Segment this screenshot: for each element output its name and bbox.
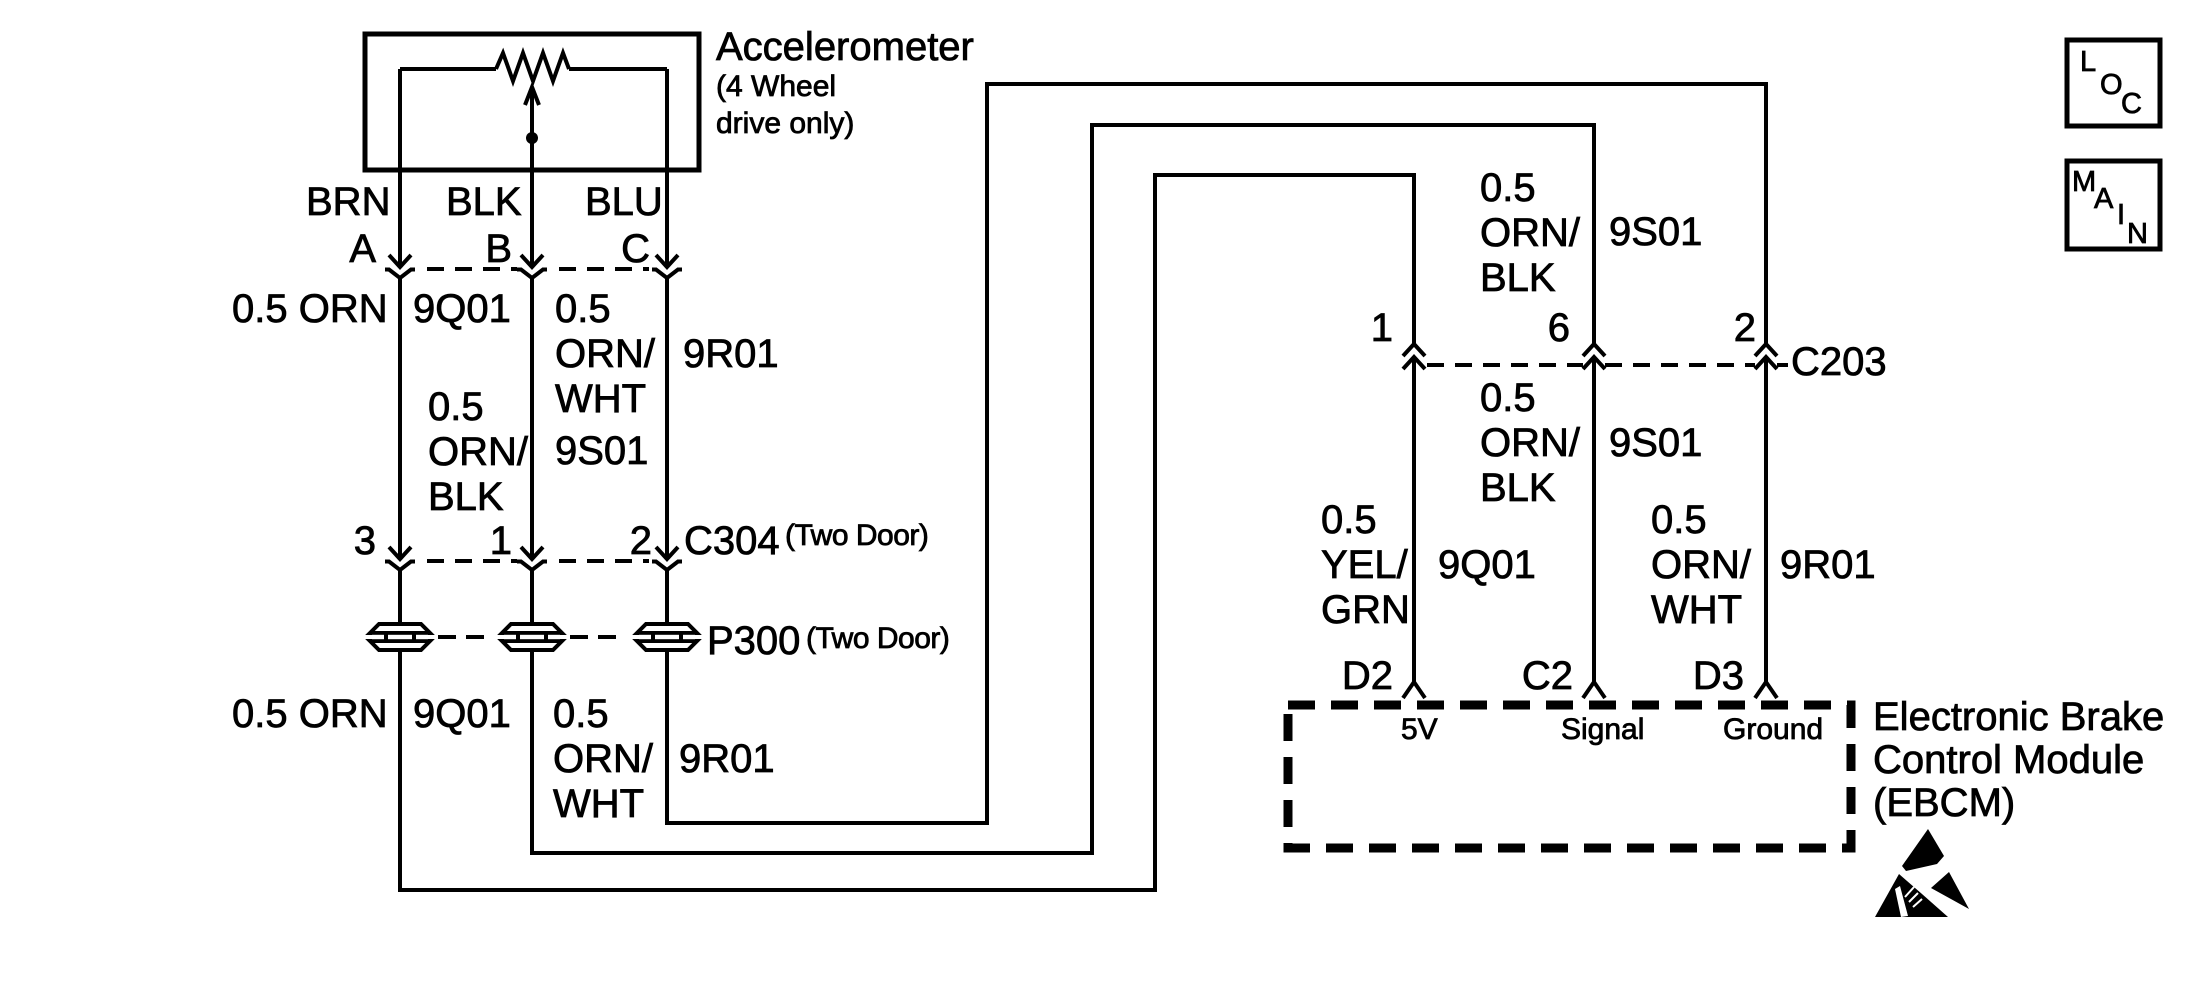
- C203 connector dashed line: [1427, 363, 1583, 367]
- svg-text:(Two Door): (Two Door): [785, 519, 928, 552]
- P300 grommet C: [637, 624, 697, 650]
- svg-text:D3: D3: [1693, 654, 1744, 698]
- C304 terminal 3: [385, 547, 415, 570]
- svg-text:BLK: BLK: [428, 475, 504, 519]
- EBCM dashed box: [1288, 705, 1851, 848]
- C304 terminal 1: [517, 547, 547, 570]
- svg-text:Accelerometer: Accelerometer: [716, 25, 974, 69]
- svg-text:9S01: 9S01: [555, 429, 648, 473]
- svg-text:GRN: GRN: [1321, 588, 1410, 632]
- LOC box: [2067, 40, 2160, 126]
- svg-text:9S01: 9S01: [1609, 210, 1702, 254]
- svg-text:WHT: WHT: [1651, 588, 1742, 632]
- connector terminal B: [517, 255, 547, 278]
- svg-text:C: C: [621, 227, 650, 271]
- svg-text:ORN/: ORN/: [555, 332, 656, 376]
- svg-text:(EBCM): (EBCM): [1873, 781, 2015, 825]
- C203 terminal 1: [1403, 344, 1425, 369]
- wire A (BRN, pin A, 0.5 ORN 9Q01): [400, 69, 1414, 890]
- svg-text:Electronic Brake: Electronic Brake: [1873, 695, 2164, 739]
- svg-text:BLU: BLU: [585, 180, 663, 224]
- svg-text:0.5 ORN: 0.5 ORN: [232, 287, 388, 331]
- C203 terminal 2: [1755, 344, 1777, 369]
- svg-text:0.5 ORN: 0.5 ORN: [232, 692, 388, 736]
- svg-text:9R01: 9R01: [1780, 543, 1876, 587]
- accelerometer box: [365, 34, 699, 170]
- svg-text:BRN: BRN: [306, 180, 390, 224]
- svg-text:BLK: BLK: [446, 180, 522, 224]
- P300 dashed line: [438, 635, 494, 639]
- svg-text:ORN/: ORN/: [428, 430, 529, 474]
- wiper junction dot: [526, 132, 538, 144]
- resistor (potentiometer element): [496, 53, 569, 81]
- svg-text:YEL/: YEL/: [1321, 543, 1409, 587]
- svg-text:9R01: 9R01: [683, 332, 779, 376]
- accelerometer connector dashed line (pins A B C): [427, 267, 517, 271]
- svg-text:L: L: [2080, 46, 2096, 78]
- svg-text:ORN/: ORN/: [1651, 543, 1752, 587]
- svg-text:C203: C203: [1791, 340, 1887, 384]
- svg-text:Ground: Ground: [1723, 713, 1823, 746]
- svg-text:ORN/: ORN/: [1480, 421, 1581, 465]
- svg-text:0.5: 0.5: [1651, 498, 1707, 542]
- svg-text:ORN/: ORN/: [553, 737, 654, 781]
- svg-text:B: B: [485, 227, 512, 271]
- svg-text:WHT: WHT: [553, 782, 644, 826]
- svg-text:M: M: [2072, 166, 2096, 198]
- svg-text:BLK: BLK: [1480, 466, 1556, 510]
- svg-text:C: C: [2121, 88, 2142, 120]
- svg-text:D2: D2: [1342, 654, 1393, 698]
- svg-text:0.5: 0.5: [1480, 376, 1536, 420]
- svg-text:1: 1: [490, 519, 512, 563]
- C304 terminal 2: [652, 547, 682, 570]
- C304 connector dashed line: [427, 559, 517, 563]
- P300 grommet A: [370, 624, 430, 650]
- ESD warning symbol: [1875, 829, 1969, 917]
- svg-text:6: 6: [1548, 306, 1570, 350]
- svg-text:ORN/: ORN/: [1480, 211, 1581, 255]
- svg-text:0.5: 0.5: [555, 287, 611, 331]
- connector terminal C: [652, 255, 682, 278]
- svg-text:(4 Wheel: (4 Wheel: [716, 70, 836, 103]
- svg-text:0.5: 0.5: [1321, 498, 1377, 542]
- svg-text:0.5: 0.5: [553, 692, 609, 736]
- P300 grommet B: [502, 624, 562, 650]
- svg-text:Control Module: Control Module: [1873, 738, 2144, 782]
- svg-text:5V: 5V: [1401, 713, 1438, 746]
- svg-text:drive only): drive only): [716, 107, 854, 140]
- connector terminal A: [385, 255, 415, 278]
- svg-text:0.5: 0.5: [428, 385, 484, 429]
- C203 terminal 6: [1583, 344, 1605, 369]
- svg-text:1: 1: [1371, 306, 1393, 350]
- svg-text:A: A: [349, 227, 376, 271]
- svg-text:9Q01: 9Q01: [413, 287, 511, 331]
- svg-text:WHT: WHT: [555, 377, 646, 421]
- wiper arrow: [525, 87, 539, 105]
- EBCM terminal C2: [1583, 682, 1605, 698]
- svg-text:A: A: [2094, 183, 2114, 215]
- svg-text:2: 2: [1734, 306, 1756, 350]
- svg-text:9S01: 9S01: [1609, 421, 1702, 465]
- EBCM terminal D2: [1403, 682, 1425, 698]
- wire B (BLK, pin B, wiper / 9S01): [532, 92, 1594, 853]
- svg-text:I: I: [2117, 199, 2125, 231]
- svg-text:9Q01: 9Q01: [1438, 543, 1536, 587]
- svg-text:9R01: 9R01: [679, 737, 775, 781]
- svg-text:3: 3: [354, 519, 376, 563]
- wire C (BLU, pin C, 0.5 ORN/WHT 9R01): [667, 69, 1766, 823]
- svg-text:0.5: 0.5: [1480, 166, 1536, 210]
- svg-text:C2: C2: [1522, 654, 1573, 698]
- EBCM terminal D3: [1755, 682, 1777, 698]
- svg-text:2: 2: [630, 519, 652, 563]
- svg-text:N: N: [2127, 218, 2148, 250]
- svg-text:BLK: BLK: [1480, 256, 1556, 300]
- svg-text:C304: C304: [684, 519, 780, 563]
- svg-text:9Q01: 9Q01: [413, 692, 511, 736]
- svg-text:Signal: Signal: [1561, 713, 1644, 746]
- MAIN box: [2067, 161, 2160, 250]
- svg-text:(Two Door): (Two Door): [806, 622, 949, 655]
- svg-text:O: O: [2100, 69, 2123, 101]
- svg-text:P300: P300: [707, 619, 800, 663]
- accelerometer internal wiring: [400, 67, 667, 71]
